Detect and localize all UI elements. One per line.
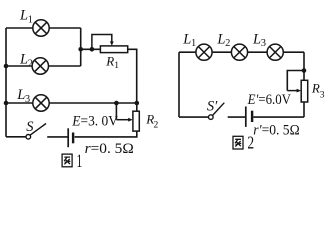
svg-text:2: 2 <box>28 58 33 69</box>
wire: R3 wiper arm <box>287 71 304 91</box>
R1 wiper arm with arrow <box>92 35 112 50</box>
node: R1 wiper tap <box>90 47 95 52</box>
lamp L3 (circuit 2) <box>267 44 283 60</box>
svg-text:E′=6.0V: E′=6.0V <box>247 92 292 108</box>
wire: L2 branch <box>6 65 81 67</box>
battery E' (circuit 2): long plate <box>245 107 247 127</box>
svg-text:1: 1 <box>114 61 119 71</box>
resistor R2 (rheostat box, vertical) <box>133 111 139 131</box>
node: rail-L2 <box>4 64 9 69</box>
svg-text:S′: S′ <box>207 99 218 115</box>
lamp L1 (circuit 1) <box>33 20 49 36</box>
resistor R1 (rheostat box) <box>100 46 127 53</box>
junction dots circuit 1 <box>4 47 139 105</box>
node: R2 wiper tap <box>114 101 119 106</box>
node: connector mid <box>78 47 83 52</box>
node: R2 top <box>135 101 140 106</box>
switch S (circuit 1) <box>26 124 46 140</box>
svg-text:1: 1 <box>77 151 83 171</box>
R2 wiper arrow <box>116 119 129 121</box>
wire: L1 branch <box>6 27 81 29</box>
wire: circuit1 left rail <box>5 28 7 137</box>
wire: circuit2 top <box>179 51 304 53</box>
svg-text:S: S <box>26 119 34 135</box>
battery E' (circuit 2): short thick plate <box>251 111 253 122</box>
R3 wiper arrow <box>287 90 297 92</box>
wire: circuit1 bottom left (rail to switch) <box>6 136 26 138</box>
wire: L1-L2 right connector <box>80 28 82 66</box>
lamp L1 (circuit 2) <box>196 44 212 60</box>
svg-text:1: 1 <box>28 15 33 26</box>
wire: R1 right terminal down to L3 line <box>128 49 137 103</box>
svg-text:2: 2 <box>154 120 159 130</box>
svg-text:R: R <box>105 54 114 69</box>
wire: L3 branch <box>6 102 137 104</box>
label figure 2 (hand-drawn CJK tu character) <box>233 136 243 149</box>
wire: circuit2 left rail <box>178 52 180 117</box>
svg-text:r′=0. 5Ω: r′=0. 5Ω <box>253 122 300 138</box>
svg-text:E=3. 0V: E=3. 0V <box>71 113 118 129</box>
svg-text:2: 2 <box>247 134 254 153</box>
svg-text:3: 3 <box>261 38 266 49</box>
switch S' (circuit 2) <box>209 103 225 120</box>
svg-text:2: 2 <box>225 38 230 49</box>
node: rail-L3 <box>4 101 9 106</box>
svg-text:R: R <box>311 81 320 96</box>
wire: R2 bottom lead to bottom wire <box>75 131 137 137</box>
wire: circuit2 right rail upper <box>303 52 305 80</box>
wire: circuit2 bottom left <box>179 116 209 118</box>
lamp L2 (circuit 1) <box>32 58 48 74</box>
lamp L2 (circuit 2) <box>231 44 247 60</box>
wire: switch2 to battery2 <box>228 116 245 118</box>
label figure 1 (hand-drawn CJK tu character) <box>62 154 72 167</box>
svg-text:3: 3 <box>320 90 325 100</box>
wire: R2 wiper lead <box>115 103 117 120</box>
wire: switch to battery <box>47 136 67 138</box>
svg-text:3: 3 <box>25 94 30 105</box>
resistor R3 (rheostat box, vertical) <box>301 80 308 102</box>
battery E (circuit 1): short thick plate <box>72 133 74 144</box>
svg-text:1: 1 <box>191 38 196 49</box>
wire: battery2 to right rail <box>253 116 304 118</box>
svg-text:r=0. 5Ω: r=0. 5Ω <box>85 141 134 157</box>
wire: circuit2 right rail lower <box>303 102 305 117</box>
wire: R2 top lead <box>136 103 138 111</box>
node: R3 top junction <box>302 68 307 73</box>
lamp L3 (circuit 1) <box>33 95 49 111</box>
wire: node to R1 left terminal <box>81 48 101 50</box>
battery E (circuit 1): long plate <box>67 128 69 147</box>
